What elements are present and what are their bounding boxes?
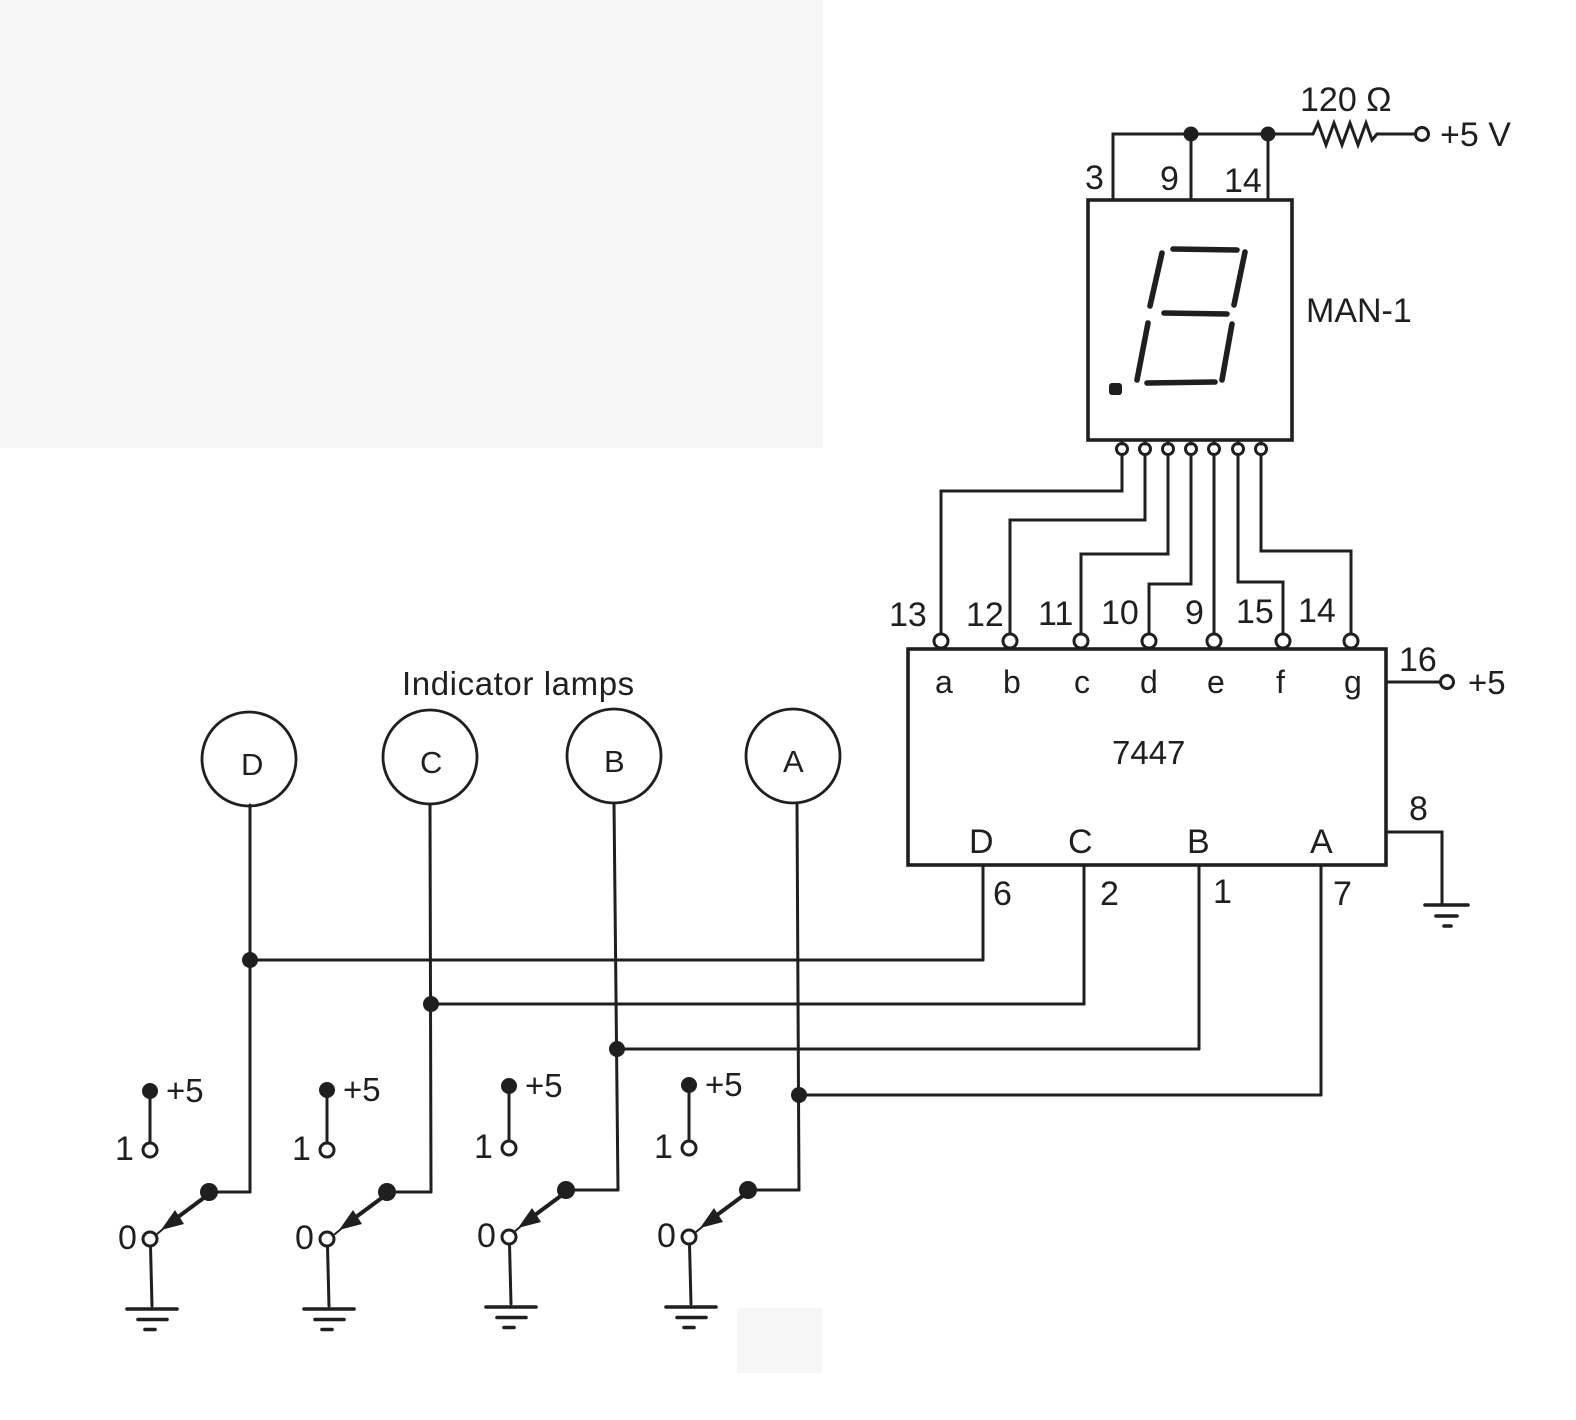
svg-text:D: D [241, 747, 263, 782]
svg-text:c: c [1074, 664, 1090, 700]
junction dot bus C [423, 996, 439, 1012]
contact 1 circle S4 [682, 1141, 696, 1155]
wire lamp C down [430, 804, 431, 1192]
contact 0 circle S1 [143, 1232, 157, 1246]
decimal point [1109, 383, 1122, 395]
contact 1 circle S2 [320, 1143, 334, 1157]
svg-text:1: 1 [115, 1130, 134, 1168]
svg-text:8: 8 [1409, 790, 1428, 828]
wire bus A [799, 1094, 1321, 1097]
junction dot bus D [242, 952, 258, 968]
ground S2 [304, 1309, 354, 1330]
svg-text:14: 14 [1298, 592, 1336, 630]
svg-text:7447: 7447 [1112, 734, 1185, 771]
svg-text:0: 0 [657, 1217, 676, 1255]
svg-text:0: 0 [295, 1219, 314, 1257]
wire bus D [250, 959, 983, 962]
display pin e circle [1209, 440, 1220, 455]
display pin b circle [1140, 440, 1151, 455]
wire S3 pole to lamp wire [566, 1189, 618, 1192]
wire 7447 pin 7 stub (A) [1320, 866, 1323, 1095]
svg-text:120 Ω: 120 Ω [1300, 81, 1392, 119]
7447 input pin 12 circle [1003, 634, 1017, 648]
svg-text:C: C [420, 745, 442, 780]
wire resistor to +5V terminal [1377, 133, 1415, 136]
wire S1 +5 to contact 1 [149, 1095, 152, 1142]
contact 0 circle S3 [502, 1230, 516, 1244]
svg-text:15: 15 [1236, 593, 1274, 631]
segment b [1234, 252, 1245, 305]
svg-text:A: A [1310, 823, 1333, 861]
segment c [1222, 324, 1232, 380]
segment f [1150, 253, 1162, 306]
svg-text:e: e [1207, 664, 1225, 700]
svg-text:MAN-1: MAN-1 [1306, 292, 1412, 330]
segment g [1164, 313, 1227, 314]
svg-text:d: d [1140, 664, 1158, 700]
wire 7447 pin 1 stub (B) [1198, 866, 1201, 1049]
svg-text:1: 1 [654, 1128, 673, 1166]
wire bus C [431, 1003, 1084, 1006]
wire 7447 pin 6 stub (D) [982, 866, 985, 960]
7447 input pin 14 circle [1344, 634, 1358, 648]
ground S1 [127, 1309, 177, 1330]
wire S4 +5 to contact 1 [688, 1089, 691, 1140]
svg-text:11: 11 [1038, 595, 1073, 633]
switch S3 (B input) [486, 1078, 618, 1328]
svg-text:3: 3 [1085, 159, 1104, 197]
terminal +5V open circle [1416, 128, 1429, 141]
wire power rail +5V [1113, 134, 1313, 200]
svg-text:f: f [1276, 664, 1285, 700]
segment e [1137, 323, 1148, 380]
svg-text:a: a [935, 664, 953, 700]
7447 input pin 11 circle [1074, 634, 1088, 648]
svg-text:16: 16 [1399, 641, 1437, 679]
switch S4 (A input) [666, 1077, 799, 1328]
wire segment a to 7447 pin 13 [941, 455, 1122, 634]
switch S2 (C input) [304, 1082, 431, 1330]
svg-text:0: 0 [477, 1217, 496, 1255]
svg-text:0: 0 [118, 1219, 137, 1257]
wire S2 +5 to contact 1 [326, 1094, 329, 1142]
svg-text:2: 2 [1100, 875, 1119, 913]
wire S2 pole to lamp wire [387, 1191, 431, 1194]
lamp D circle [202, 712, 296, 806]
wire pin 14 stub [1267, 134, 1270, 200]
junction dot pin14 rail [1261, 127, 1276, 142]
scan tone patch top-left [0, 0, 823, 448]
wire pin 16 to +5 [1386, 681, 1440, 684]
switch arm arrow S2 [335, 1197, 383, 1234]
7447 input pin 10 circle [1142, 634, 1156, 648]
svg-text:+5 V: +5 V [1440, 116, 1511, 154]
switch S1 (D input) [127, 1083, 250, 1330]
pole dot S2 [378, 1183, 396, 1201]
display pin d circle [1186, 440, 1197, 455]
contact 1 circle S1 [143, 1143, 157, 1157]
IC U2 7447 body [908, 649, 1386, 865]
pole dot S4 [739, 1181, 757, 1199]
wire pin 9 stub [1190, 134, 1193, 200]
wire lamp A down [797, 803, 799, 1190]
pole dot S3 [557, 1181, 575, 1199]
7447 input pin 15 circle [1276, 634, 1290, 648]
display pin a circle [1117, 440, 1128, 455]
svg-text:B: B [1187, 823, 1210, 861]
junction dot bus B [609, 1041, 625, 1057]
lamp A circle [746, 709, 840, 803]
svg-text:+5: +5 [1468, 664, 1506, 701]
contact 0 circle S4 [682, 1230, 696, 1244]
+5 dot S3 [501, 1078, 517, 1094]
svg-text:12: 12 [966, 596, 1004, 634]
svg-text:14: 14 [1224, 162, 1262, 200]
lamp B circle [567, 709, 661, 803]
svg-text:13: 13 [889, 596, 927, 634]
svg-text:+5: +5 [705, 1066, 743, 1103]
junction dot bus A [791, 1087, 807, 1103]
display pin c circle [1163, 440, 1174, 455]
ground pin8 [1425, 905, 1468, 926]
lamp C circle [383, 710, 477, 804]
display U1 MAN-1 body [1088, 200, 1292, 440]
wire segment b to 7447 pin 12 [1010, 455, 1145, 634]
display pin g circle [1256, 440, 1267, 455]
wire S4 pole to lamp wire [748, 1189, 799, 1192]
svg-text:10: 10 [1101, 594, 1139, 632]
pole dot S1 [200, 1183, 218, 1201]
svg-text:D: D [969, 823, 994, 861]
segment a [1173, 249, 1237, 250]
wire lamp D down [249, 805, 252, 1192]
+5 dot S2 [319, 1082, 335, 1098]
wire 7447 pin 2 stub (C) [1083, 866, 1086, 1004]
svg-text:1: 1 [1213, 873, 1232, 911]
contact 1 circle S3 [502, 1141, 516, 1155]
wire segment g to 7447 pin 14 [1261, 455, 1351, 634]
wire S1 0 to ground [151, 1246, 153, 1306]
wire S2 0 to ground [328, 1246, 330, 1306]
svg-text:6: 6 [993, 875, 1012, 913]
+5 dot S4 [681, 1077, 697, 1093]
svg-text:+5: +5 [525, 1067, 563, 1104]
svg-text:1: 1 [474, 1128, 493, 1166]
wire segment f to 7447 pin 15 [1238, 455, 1283, 634]
svg-text:g: g [1344, 664, 1362, 700]
ground S4 [666, 1307, 716, 1328]
svg-text:+5: +5 [166, 1072, 204, 1109]
svg-text:1: 1 [292, 1130, 311, 1168]
7447 input pin 13 circle [934, 634, 948, 648]
wire segment c to 7447 pin 11 [1081, 455, 1168, 634]
+5 dot S1 [142, 1083, 158, 1099]
segment d [1147, 382, 1215, 383]
display pin f circle [1233, 440, 1244, 455]
wire bus B [618, 1048, 1199, 1051]
junction dot pin9 rail [1184, 127, 1199, 142]
wire segment d to 7447 pin 10 [1149, 455, 1191, 634]
scan tone patch bottom [737, 1308, 822, 1373]
wire S4 0 to ground [690, 1244, 692, 1304]
switch arm arrow S4 [696, 1195, 744, 1232]
wire lamp B down [614, 803, 618, 1190]
svg-text:B: B [604, 744, 625, 779]
svg-text:7: 7 [1333, 875, 1352, 913]
wire S3 0 to ground [510, 1244, 512, 1304]
ground S3 [486, 1307, 536, 1328]
svg-text:b: b [1003, 664, 1021, 700]
wire segment e to 7447 pin 9 [1213, 455, 1216, 634]
svg-text:9: 9 [1185, 594, 1204, 632]
wire S3 +5 to contact 1 [508, 1090, 511, 1140]
resistor R1 120 ohm [1313, 123, 1377, 145]
svg-text:C: C [1068, 823, 1093, 861]
switch arm arrow S1 [157, 1197, 205, 1234]
7447 input pin 9 circle [1207, 634, 1221, 648]
svg-text:+5: +5 [343, 1071, 381, 1108]
svg-text:Indicator lamps: Indicator lamps [402, 665, 635, 702]
svg-text:A: A [783, 744, 804, 779]
switch arm arrow S3 [514, 1195, 562, 1232]
terminal +5 open circle pin16 [1441, 676, 1454, 689]
wire pin 8 to ground [1386, 832, 1442, 903]
svg-text:9: 9 [1160, 160, 1179, 198]
wire S1 pole to lamp wire [209, 1191, 250, 1194]
contact 0 circle S2 [320, 1232, 334, 1246]
